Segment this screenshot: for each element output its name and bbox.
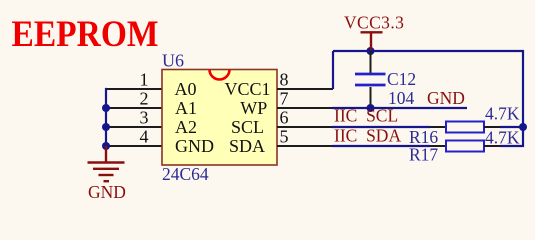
wire pin3 stub [107,126,162,128]
svg-text:4.7K: 4.7K [485,104,520,124]
wire pin8 stub [277,88,333,90]
svg-text:8: 8 [280,70,289,90]
wire pin1 stub [107,88,162,90]
svg-text:A2: A2 [175,117,197,137]
op-amp U6 body [162,70,277,166]
resistor R17 pin right [484,145,500,147]
svg-text:EEPROM: EEPROM [12,13,159,54]
svg-text:GND: GND [427,88,465,108]
junction dot C12 bottom [367,104,375,112]
svg-text:5: 5 [280,127,289,147]
svg-text:1: 1 [140,70,149,90]
svg-text:VCC1: VCC1 [224,79,270,99]
resistor R17 pin left [430,145,446,147]
junction dot VCC stem [367,47,375,55]
svg-text:VCC3.3: VCC3.3 [344,13,404,33]
wire pin6 stub [277,126,332,128]
junction dot bus R16 [519,123,527,131]
resistor R17 body [446,141,484,152]
resistor R16 body [446,122,484,133]
power bar VCC3.3 [361,31,383,33]
wire pin7 stub [277,107,332,109]
svg-text:WP: WP [240,98,267,118]
wire pin5 net [332,145,430,147]
power stem VCC3.3 [370,32,372,50]
svg-text:SDA: SDA [229,136,265,156]
capacitor C12 plate bottom [355,84,386,87]
wire pin7 net [332,107,467,109]
wire pin4 stub [107,145,162,147]
ground [88,146,125,181]
svg-text:24C64: 24C64 [162,164,209,184]
junction dot pin2 [102,104,110,112]
svg-text:GND: GND [175,136,214,156]
capacitor C12 stem bottom [370,87,372,108]
resistor R16 pin right [484,126,500,128]
wire R16 right to bus [500,126,523,128]
wire pin5 stub [277,145,332,147]
svg-text:4.7K: 4.7K [485,128,520,148]
junction dot pin4 [102,142,110,150]
svg-text:6: 6 [280,108,289,128]
svg-text:U6: U6 [162,51,184,71]
svg-text:SCL: SCL [231,117,264,137]
capacitor C12 plate top [355,73,386,76]
wire VCC bus [333,51,523,146]
wire pin6 net [332,126,430,128]
svg-text:C12: C12 [387,69,416,89]
svg-text:7: 7 [280,89,289,109]
svg-text:3: 3 [140,108,149,128]
svg-text:A0: A0 [175,79,197,99]
capacitor C12 stem top [370,51,372,73]
svg-text:2: 2 [140,89,149,109]
svg-text:IIC SDA: IIC SDA [334,126,401,146]
svg-text:4: 4 [140,127,149,147]
wire pin8 up to bus [332,51,334,89]
svg-text:GND: GND [88,182,126,202]
svg-text:IIC SCL: IIC SCL [334,106,398,126]
wire pin2 stub [107,107,162,109]
svg-text:A1: A1 [175,98,197,118]
wire left vertical [106,89,107,147]
resistor R16 pin left [430,126,446,128]
svg-text:R17: R17 [409,145,438,165]
notch arc U6 [210,70,230,80]
junction dot pin3 [102,123,110,131]
